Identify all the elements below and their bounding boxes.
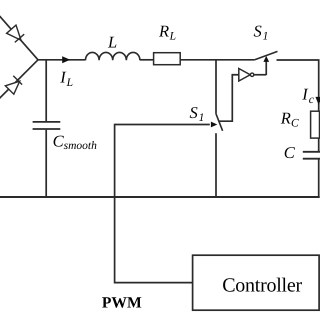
svg-text:Controller: Controller xyxy=(222,275,302,297)
diode D2 (lower left, pointing to rectifier output node) xyxy=(0,60,38,100)
switch S1 (upper) lever xyxy=(254,51,277,60)
svg-text:smooth: smooth xyxy=(64,140,97,152)
wire: bottom bus xyxy=(0,196,320,198)
current arrow Ic xyxy=(315,97,320,105)
label S1 (upper switch) xyxy=(254,21,269,42)
svg-text:S: S xyxy=(190,103,198,122)
label RL xyxy=(158,21,176,42)
svg-text:PWM: PWM xyxy=(102,295,142,312)
label Ic xyxy=(301,85,314,106)
current arrow IL xyxy=(62,56,70,63)
label RC xyxy=(280,109,299,130)
wire: resistor RL to switch S1 left contact (junction at x=216) xyxy=(180,59,254,61)
wire: capacitor C to bottom bus xyxy=(318,160,320,198)
svg-text:c: c xyxy=(309,94,314,106)
svg-text:S: S xyxy=(254,21,262,40)
svg-text:C: C xyxy=(284,143,296,162)
PWM control arrow to lower switch S1 xyxy=(115,122,218,128)
wire: lower switch to bottom bus xyxy=(215,133,217,197)
svg-text:1: 1 xyxy=(263,30,269,42)
inductor L xyxy=(86,52,140,60)
wire: inverter input down to lower switch node xyxy=(219,75,239,121)
svg-text:L: L xyxy=(66,77,73,89)
label Csmooth xyxy=(53,132,97,152)
resistor RC xyxy=(311,111,320,138)
wire: vertical branch from top rail to lower switch S1 xyxy=(215,60,217,114)
diode D1 (upper left, pointing to rectifier output node) xyxy=(0,14,38,60)
wire: PWM line from controller to switch xyxy=(115,124,193,283)
inverter U1 (drives upper S1) xyxy=(239,69,254,82)
switch S1 (lower) lever xyxy=(216,113,223,131)
svg-text:R: R xyxy=(158,21,169,40)
wire: inverter output to control arrow xyxy=(254,74,266,76)
resistor RL xyxy=(154,53,181,65)
switch S1 (upper) control arrow xyxy=(263,56,269,75)
svg-text:1: 1 xyxy=(199,112,205,124)
capacitor Csmooth xyxy=(33,60,61,198)
svg-text:R: R xyxy=(280,109,291,128)
capacitor C xyxy=(303,152,320,159)
wire: inductor to resistor RL xyxy=(140,59,154,61)
svg-text:L: L xyxy=(169,30,176,42)
wire: top rail from rectifier node to inductor xyxy=(38,59,86,61)
label S1 (lower switch) xyxy=(190,103,205,124)
svg-text:L: L xyxy=(107,33,117,52)
controller box xyxy=(193,255,320,310)
svg-text:C: C xyxy=(291,118,299,130)
wire: top rail right section (switch S1 to right branch corner) xyxy=(277,60,319,151)
label IL xyxy=(59,68,73,89)
